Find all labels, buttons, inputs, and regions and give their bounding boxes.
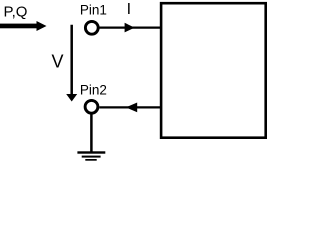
device box (two-port network) — [161, 3, 266, 138]
svg-text:V: V — [52, 52, 64, 72]
label Pin2 — [80, 82, 107, 97]
svg-text:I: I — [127, 1, 131, 18]
current arrowhead (out of box toward Pin2) — [126, 103, 137, 113]
svg-text:P,Q: P,Q — [4, 3, 28, 20]
current arrowhead I (into box) — [125, 23, 135, 33]
ground — [77, 151, 105, 160]
label Pin1 — [80, 2, 107, 17]
svg-text:Pin1: Pin1 — [80, 2, 107, 17]
wire box to Pin2 — [99, 106, 161, 108]
wire Pin1 to box — [100, 26, 162, 28]
label V — [52, 52, 64, 72]
power flow arrow P,Q — [0, 21, 47, 31]
label I — [127, 1, 131, 18]
wire Pin2 to ground — [90, 114, 93, 152]
voltage arrow V (wire with down arrowhead) — [66, 25, 77, 102]
svg-text:Pin2: Pin2 — [80, 82, 107, 97]
label P,Q — [4, 3, 28, 20]
node Pin2 (terminal circle) — [85, 100, 98, 113]
node Pin1 (terminal circle) — [85, 21, 98, 34]
